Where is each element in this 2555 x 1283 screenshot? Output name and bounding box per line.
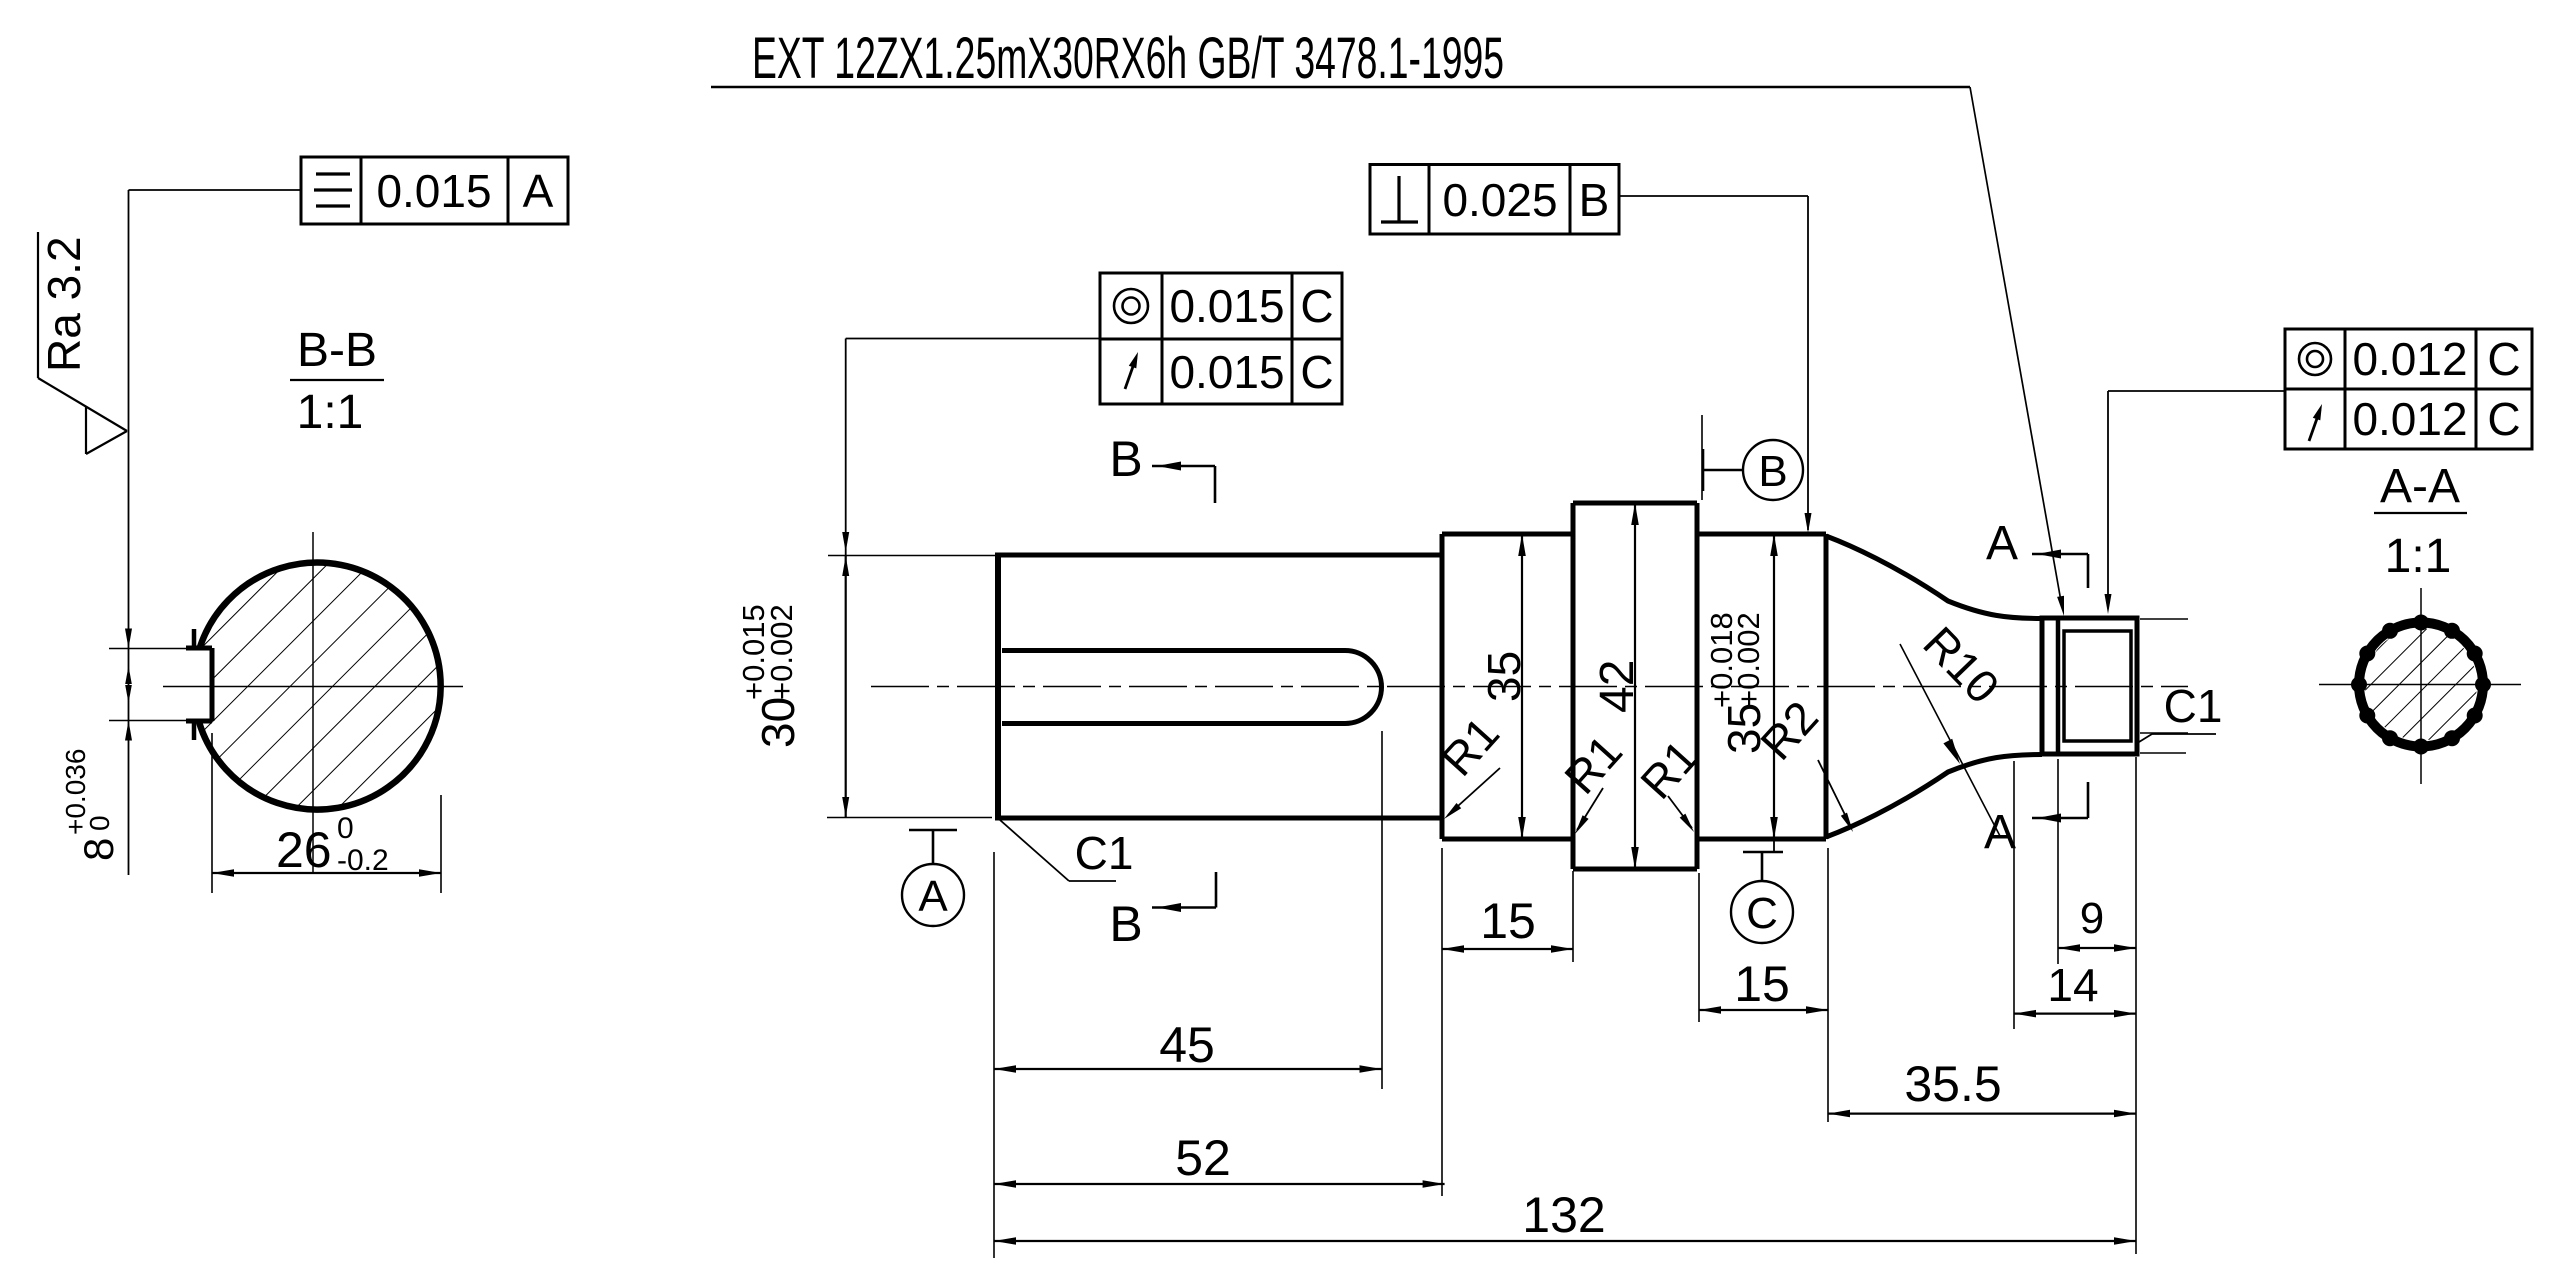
spline end section outer profile bbox=[2042, 618, 2137, 754]
svg-text:0: 0 bbox=[84, 815, 115, 831]
svg-text:C: C bbox=[2487, 393, 2520, 445]
svg-text:0.012: 0.012 bbox=[2352, 333, 2467, 385]
keyway slot in section 1 (plan view) bbox=[1002, 651, 1382, 724]
svg-text:+0.002: +0.002 bbox=[1731, 612, 1766, 708]
svg-text:52: 52 bbox=[1175, 1130, 1231, 1186]
svg-text:0.015: 0.015 bbox=[376, 165, 491, 217]
shaft left end face bbox=[995, 555, 1001, 818]
dia42 dimension line bbox=[1631, 503, 1639, 869]
shaft section 3 dia42 bottom edge bbox=[1573, 867, 1697, 872]
extension line at groove left bbox=[2013, 761, 2015, 1029]
keyway width dimension 8 +0.036/0 arrows bbox=[125, 629, 132, 741]
spline designation title EXT 12ZX1.25mX30RX6h GB/T 3478.1-1995 bbox=[752, 26, 1504, 91]
svg-text:+0.002: +0.002 bbox=[764, 604, 799, 700]
A-A horizontal centerline bbox=[2319, 684, 2521, 686]
svg-text:B: B bbox=[1579, 174, 1610, 226]
end face extension stubs bbox=[2140, 619, 2188, 753]
svg-text:B-B: B-B bbox=[297, 324, 377, 377]
svg-text:A: A bbox=[1986, 517, 2018, 570]
feature control frame perpendicularity 0.025 B bbox=[1370, 165, 1619, 235]
extension line at shaft left end bbox=[993, 852, 995, 1258]
dia35 text bbox=[1478, 651, 1530, 702]
dimension 9 (spline length) bbox=[2058, 894, 2136, 952]
svg-text:15: 15 bbox=[1480, 893, 1536, 949]
extension line at dia30/dia35 shoulder bbox=[1441, 848, 1443, 1196]
keyway width dimension text 8 +0.036/0 bbox=[60, 749, 122, 861]
svg-text:C: C bbox=[2487, 333, 2520, 385]
section label B-B bbox=[290, 324, 384, 380]
dia30 extension lines bbox=[827, 556, 996, 818]
shaft section 2 dia35 top edge bbox=[1442, 532, 1573, 537]
svg-text:1:1: 1:1 bbox=[297, 386, 364, 439]
svg-text:42: 42 bbox=[1591, 660, 1644, 713]
svg-text:C: C bbox=[1300, 346, 1333, 398]
B-B dimension 26 0/-0.2 bbox=[212, 812, 441, 878]
datum B extension line bbox=[1701, 415, 1703, 500]
taper top profile R2 R10 bbox=[1826, 536, 2042, 619]
svg-text:0: 0 bbox=[337, 812, 354, 845]
svg-text:0.015: 0.015 bbox=[1169, 346, 1284, 398]
shoulder between dia30 and dia35 bbox=[1440, 534, 1445, 839]
svg-text:8: 8 bbox=[75, 838, 122, 861]
svg-text:B: B bbox=[1758, 447, 1787, 496]
keyway width extension lines bbox=[109, 649, 199, 721]
svg-text:0.025: 0.025 bbox=[1442, 174, 1557, 226]
svg-text:1:1: 1:1 bbox=[2385, 530, 2452, 583]
spline root diameter box bbox=[2064, 631, 2131, 741]
fillet R2 at taper start bbox=[1750, 691, 1853, 832]
spline relief groove bbox=[2056, 618, 2061, 754]
svg-text:C: C bbox=[1746, 889, 1778, 938]
B-B hatched shaft cross-section with keyway bbox=[180, 550, 460, 830]
svg-text:0.015: 0.015 bbox=[1169, 280, 1284, 332]
extension line at dia42 right shoulder bbox=[1698, 873, 1700, 1022]
datum A symbol bbox=[902, 830, 964, 926]
svg-text:0.012: 0.012 bbox=[2352, 393, 2467, 445]
dimension 14 (end section length) bbox=[2014, 959, 2136, 1017]
extension line at keyway end bbox=[1381, 731, 1383, 1089]
fillet R1 at dia35/dia42 shoulder bbox=[1554, 725, 1632, 834]
svg-text:R1: R1 bbox=[1554, 725, 1632, 804]
svg-text:A: A bbox=[918, 872, 948, 921]
B-B keyway slot bbox=[186, 629, 212, 740]
chamfer C1 at spline end bbox=[2139, 680, 2222, 742]
svg-text:A: A bbox=[523, 165, 554, 217]
A-A spline cross-section bbox=[2351, 615, 2491, 755]
shaft section 1 dia30 bottom edge bbox=[995, 816, 1442, 821]
svg-text:45: 45 bbox=[1159, 1017, 1215, 1073]
svg-text:C: C bbox=[1300, 280, 1333, 332]
section cut A top marker bbox=[1986, 517, 2088, 588]
leader from concentricity frame to dia30 dimension bbox=[842, 339, 1100, 557]
svg-text:35: 35 bbox=[1478, 651, 1530, 702]
extension line at shaft right end bbox=[2135, 757, 2137, 1254]
datum B symbol bbox=[1703, 440, 1803, 500]
svg-text:B: B bbox=[1109, 896, 1142, 952]
svg-text:132: 132 bbox=[1522, 1187, 1605, 1243]
svg-text:9: 9 bbox=[2080, 894, 2104, 943]
B-B diameter extension lines bbox=[212, 733, 441, 893]
dia42 text bbox=[1591, 660, 1644, 713]
dimension 52 bbox=[994, 1130, 1445, 1188]
svg-text:A-A: A-A bbox=[2380, 460, 2460, 513]
svg-text:30: 30 bbox=[752, 697, 804, 748]
extension line at spline start bbox=[2057, 759, 2059, 964]
dia35 dimension line bbox=[1518, 534, 1526, 839]
section label A-A bbox=[2374, 460, 2467, 513]
shoulder between dia42 and dia35k6 bbox=[1695, 503, 1700, 869]
taper bottom profile R2 R10 bbox=[1826, 755, 2042, 838]
svg-text:Ra 3.2: Ra 3.2 bbox=[38, 236, 90, 372]
svg-text:15: 15 bbox=[1734, 956, 1790, 1012]
section scale 1:1 (A-A) bbox=[2385, 530, 2452, 583]
dia35 +0.018/+0.002 dimension line bbox=[1770, 534, 1778, 852]
shaft section 3 dia42 top edge bbox=[1573, 501, 1697, 506]
surface finish symbol Ra 3.2 bbox=[38, 232, 127, 454]
title underline / leader to spline bbox=[711, 86, 1970, 89]
shaft section 4 dia35k6 top edge bbox=[1697, 532, 1826, 537]
feature control frame concentricity 0.015 C and runout 0.015 C bbox=[1100, 273, 1342, 404]
section cut B bottom marker bbox=[1109, 872, 1216, 952]
feature control frame concentricity 0.012 C and runout 0.012 C bbox=[2285, 329, 2532, 449]
svg-text:B: B bbox=[1109, 431, 1142, 487]
dimension 35.5 bbox=[1828, 1056, 2136, 1117]
B-B vertical centerline bbox=[312, 532, 314, 872]
datum C symbol bbox=[1731, 852, 1793, 943]
dimension 132 (overall length) bbox=[994, 1187, 2136, 1245]
section cut A bottom marker bbox=[1984, 782, 2088, 859]
dia30 dimension line and arrows bbox=[842, 556, 849, 817]
A-A vertical centerline bbox=[2420, 588, 2422, 784]
dimension 45 (keyway length) bbox=[994, 1017, 1382, 1073]
fillet R1 at dia42/dia35k6 shoulder bbox=[1630, 730, 1708, 832]
svg-text:EXT 12ZX1.25mX30RX6h GB/T 3478: EXT 12ZX1.25mX30RX6h GB/T 3478.1-1995 bbox=[752, 26, 1504, 91]
fillet R1 at dia30/dia35 shoulder bbox=[1431, 707, 1509, 819]
leader from perpendicularity frame bbox=[1619, 196, 1812, 533]
shaft section 4 dia35k6 bottom edge bbox=[1697, 837, 1826, 842]
taper shoulder at section 4 right bbox=[1824, 534, 1829, 839]
svg-text:26: 26 bbox=[276, 822, 332, 878]
chamfer C1 at left end bbox=[1000, 820, 1133, 881]
dia35 +0.018/+0.002 text bbox=[1704, 612, 1770, 754]
svg-text:35.5: 35.5 bbox=[1904, 1056, 2001, 1112]
dia30 +0.015/+0.002 dimension text bbox=[736, 604, 804, 748]
leader from 0.012 frame to spline bbox=[2105, 391, 2286, 614]
B-B horizontal centerline bbox=[163, 686, 463, 688]
shaft centerline bbox=[871, 686, 2188, 688]
svg-text:C1: C1 bbox=[1075, 827, 1134, 879]
section cut B top marker bbox=[1109, 431, 1215, 503]
shaft section 2 dia35 bottom edge bbox=[1442, 837, 1573, 842]
leader from symmetry frame to keyway width dimension bbox=[129, 190, 302, 875]
extension line at taper start bbox=[1827, 848, 1829, 1122]
feature control frame symmetry 0.015 A bbox=[301, 157, 568, 224]
leader line from spline designation to spline section bbox=[1970, 87, 2064, 616]
shoulder between dia35 and dia42 left bbox=[1571, 503, 1576, 869]
radius R10 of taper bbox=[1900, 616, 2010, 836]
svg-text:-0.2: -0.2 bbox=[337, 844, 389, 877]
dimension 15 (dia35 section width) bbox=[1442, 893, 1573, 953]
section scale 1:1 bbox=[297, 386, 364, 439]
shaft section 1 dia30 top edge bbox=[995, 553, 1442, 558]
dimension 15 (dia35k6 section width) bbox=[1699, 956, 1828, 1014]
svg-text:14: 14 bbox=[2047, 959, 2098, 1011]
extension line at dia35/dia42 shoulder bbox=[1572, 871, 1574, 962]
svg-text:C1: C1 bbox=[2164, 680, 2223, 732]
